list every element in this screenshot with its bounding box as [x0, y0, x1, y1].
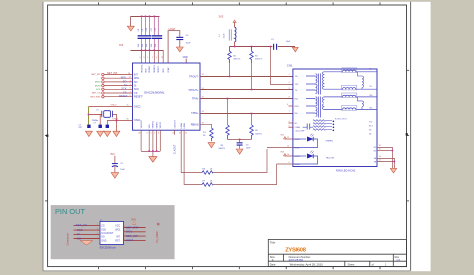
- svg-text:7: 7: [289, 111, 290, 113]
- wire LEDA: [181, 130, 202, 172]
- capacitor C14: [106, 120, 108, 124]
- svg-text:9: 9: [144, 57, 145, 59]
- svg-text:3: 3: [97, 229, 98, 231]
- svg-text:NET_CS: NET_CS: [92, 93, 101, 95]
- pinout right net labels: [126, 225, 139, 242]
- rail wire 2: [278, 46, 295, 48]
- svg-text:1.0: 1.0: [396, 258, 400, 262]
- svg-text:SI: SI: [134, 85, 137, 88]
- pinout left net labels: [76, 223, 87, 240]
- wire: [130, 17, 132, 28]
- wire: [116, 121, 118, 132]
- svg-text:25: 25: [127, 105, 129, 107]
- svg-text:12: 12: [202, 74, 204, 76]
- svg-text:C9: C9: [142, 29, 144, 31]
- termination resistor RT3: [313, 126, 332, 128]
- svg-text:LEDA: LEDA: [126, 238, 133, 242]
- svg-text:50R 1%: 50R 1%: [233, 59, 240, 61]
- cap plates group2: [152, 35, 162, 39]
- CN1 left pin numbers: [287, 74, 290, 164]
- svg-text:20: 20: [138, 133, 140, 135]
- capacitor C9: [145, 16, 147, 50]
- vdd rail: [131, 50, 164, 52]
- ground: [97, 131, 104, 136]
- svg-text:PIN OUT: PIN OUT: [55, 207, 85, 216]
- svg-text:ENC28J60: ENC28J60: [289, 258, 304, 262]
- svg-text:5: 5: [150, 133, 151, 135]
- svg-text:CS: CS: [101, 226, 105, 228]
- wire shield: [377, 159, 395, 169]
- svg-text:SO: SO: [134, 81, 138, 84]
- ground: [104, 131, 111, 136]
- pinout pin numbers: [97, 224, 125, 241]
- svg-text:10nF: 10nF: [246, 148, 251, 150]
- RX winding wires: [306, 97, 324, 113]
- wire: [213, 164, 277, 185]
- svg-text:6: 6: [124, 235, 125, 237]
- capacitor C5: [112, 164, 118, 167]
- svg-text:NET_RST: NET_RST: [91, 96, 102, 98]
- ground: [85, 131, 92, 136]
- capacitor C3: [274, 44, 277, 50]
- pin names right: [188, 74, 199, 126]
- svg-text:10uH: 10uH: [223, 33, 225, 38]
- resistor R5: [251, 114, 253, 126]
- svg-text:LEDA: LEDA: [180, 123, 183, 129]
- svg-text:50R1%: 50R1%: [255, 133, 262, 135]
- svg-text:11: 11: [179, 133, 181, 135]
- PIN OUT panel: [51, 205, 175, 259]
- CN1 right shield pins: [374, 147, 377, 164]
- svg-text:7: 7: [97, 237, 98, 239]
- svg-text:Date:: Date:: [270, 263, 276, 267]
- transformer T1 TX primary: [316, 74, 318, 94]
- svg-text:Sheet: Sheet: [348, 263, 355, 267]
- svg-text:1: 1: [97, 224, 98, 226]
- junction dots: [227, 76, 253, 115]
- capacitor C11: [153, 16, 155, 50]
- resistor R3: [250, 47, 254, 64]
- zone mark dot left: [46, 135, 48, 137]
- pinout right wires: [124, 228, 146, 241]
- svg-text:Connector: Connector: [65, 233, 69, 246]
- ground: [111, 173, 119, 179]
- svg-text:Pn_PWR: Pn_PWR: [155, 231, 159, 242]
- svg-text:VSSOSC: VSSOSC: [141, 120, 143, 129]
- capacitor C8: [141, 16, 143, 50]
- junction dots: [234, 46, 272, 48]
- svg-text:4: 4: [124, 230, 125, 232]
- right inner labels: [369, 121, 374, 135]
- junction dots: [141, 16, 155, 52]
- svg-text:SCK: SCK: [121, 88, 126, 91]
- svg-text:VSSRX: VSSRX: [156, 121, 158, 128]
- svg-text:VDD: VDD: [183, 56, 188, 59]
- choke RD+: [324, 95, 377, 97]
- svg-text:WOL: WOL: [134, 77, 140, 80]
- pinout node circle: [157, 223, 159, 225]
- wire shield: [377, 161, 394, 163]
- pin names top: [141, 64, 170, 73]
- svg-text:TD+: TD+: [369, 69, 372, 71]
- svg-text:10uF: 10uF: [186, 42, 192, 44]
- net VDD stub: [185, 59, 187, 64]
- ground: [176, 47, 183, 52]
- page left edge: [42, 2, 44, 271]
- svg-text:RESET*: RESET*: [134, 96, 143, 99]
- svg-text:YELLOW: YELLOW: [326, 158, 334, 160]
- ground: [113, 131, 120, 136]
- cap plates group1: [138, 35, 152, 39]
- right pin numbers U1: [202, 74, 204, 124]
- svg-text:16: 16: [379, 145, 381, 147]
- svg-text:6: 6: [287, 104, 288, 106]
- wire: [234, 22, 236, 27]
- svg-text:VDD: VDD: [163, 68, 165, 73]
- transformer T1 core: [318, 74, 320, 95]
- left pin numbers: [128, 73, 131, 97]
- svg-text:13: 13: [202, 88, 204, 90]
- svg-text:4: 4: [130, 80, 131, 82]
- svg-text:CLKOUT: CLKOUT: [174, 144, 177, 154]
- transformer T2 RX primary: [316, 97, 318, 117]
- svg-text:ENC28J60-pin: ENC28J60-pin: [100, 246, 117, 249]
- wire: [213, 149, 267, 173]
- svg-text:VDDTX: VDDTX: [158, 65, 160, 72]
- svg-text:104: 104: [138, 44, 140, 47]
- svg-text:8: 8: [124, 239, 125, 241]
- svg-text:CN1: CN1: [287, 64, 293, 68]
- resistor R7: [202, 183, 213, 187]
- svg-text:RST: RST: [115, 240, 120, 242]
- junction: [88, 114, 90, 116]
- svg-text:27: 27: [172, 132, 174, 134]
- svg-text:OSC2: OSC2: [111, 105, 118, 107]
- wire TPOUT-: [200, 76, 293, 78]
- svg-text:1: 1: [147, 57, 148, 59]
- svg-text:Wednesday, April 28, 2010: Wednesday, April 28, 2010: [290, 263, 324, 267]
- svg-text:5: 5: [130, 84, 131, 86]
- wire RBIAS: [200, 124, 211, 128]
- svg-text:NET_INT: NET_INT: [107, 72, 118, 75]
- svg-text:VCAP: VCAP: [167, 67, 170, 73]
- svg-text:VDDRX: VDDRX: [149, 65, 151, 73]
- svg-text:C10: C10: [146, 28, 148, 31]
- svg-text:6: 6: [130, 88, 131, 90]
- termination resistor RT1: [313, 120, 332, 122]
- inductor L1: [235, 27, 236, 42]
- svg-text:3V3: 3V3: [280, 152, 283, 154]
- pin names bottom: [141, 120, 186, 129]
- transformer T2 core: [318, 97, 320, 118]
- svg-text:VCC: VCC: [115, 226, 120, 228]
- wire OSC1: [107, 120, 132, 122]
- svg-text:TPIN-: TPIN-: [192, 97, 199, 101]
- ground: [292, 47, 298, 51]
- bottom pin numbers: [138, 133, 159, 135]
- svg-text:3: 3: [289, 88, 290, 90]
- svg-text:SCK: SCK: [134, 88, 139, 91]
- svg-text:8: 8: [289, 97, 290, 99]
- svg-text:8: 8: [130, 95, 131, 97]
- svg-text:GND: GND: [101, 240, 106, 242]
- svg-text:28: 28: [128, 73, 130, 75]
- svg-text:10nF: 10nF: [286, 41, 291, 43]
- wire TPOUT+: [200, 89, 293, 91]
- off-page connector circles: [102, 73, 104, 98]
- svg-text:3V3: 3V3: [110, 153, 115, 156]
- title block texts: [270, 241, 400, 267]
- svg-text:7: 7: [130, 91, 131, 93]
- svg-text:TD-: TD-: [369, 86, 372, 88]
- termination resistor RT2: [313, 123, 332, 125]
- wire LEDB: [184, 130, 202, 184]
- svg-text:TX-: TX-: [295, 90, 298, 92]
- page right edge: [410, 2, 412, 271]
- junction: [116, 120, 118, 122]
- svg-text:CLKOUT: CLKOUT: [174, 120, 176, 129]
- gnd rail top: [131, 16, 160, 18]
- svg-text:14: 14: [379, 156, 381, 158]
- svg-text:19: 19: [161, 57, 163, 59]
- svg-text:SI: SI: [124, 84, 127, 87]
- svg-text:ZYSI608: ZYSI608: [285, 248, 307, 254]
- svg-text:14: 14: [202, 111, 204, 113]
- svg-text:104: 104: [146, 44, 148, 47]
- pinout left wires: [74, 225, 101, 238]
- pin stub RDC: [288, 105, 293, 107]
- pinout 3V3 power: [131, 217, 136, 224]
- junction dots: [392, 150, 396, 163]
- svg-text:RD-: RD-: [295, 113, 299, 115]
- svg-text:VDDOSC: VDDOSC: [141, 64, 143, 73]
- svg-text:2: 2: [289, 82, 290, 84]
- choke RD-: [324, 108, 377, 110]
- wire LED2-: [277, 163, 293, 165]
- capacitor C7: [87, 125, 90, 128]
- svg-text:OSC1: OSC1: [134, 119, 141, 122]
- svg-text:ENC28J60/ML: ENC28J60/ML: [144, 91, 164, 95]
- capacitor C13: [99, 114, 101, 125]
- cap value labels: [138, 28, 157, 47]
- capacitor C6: [239, 139, 241, 142]
- choke TD-: [324, 88, 377, 90]
- svg-text:15: 15: [202, 97, 204, 99]
- svg-text:104: 104: [142, 44, 144, 47]
- termination junctions: [333, 121, 335, 132]
- LED D2 yellow: [293, 155, 306, 157]
- svg-text:50R1%: 50R1%: [218, 148, 225, 150]
- svg-text:INT: INT: [116, 237, 120, 239]
- resistor R6: [202, 171, 213, 175]
- svg-text:WOL: WOL: [121, 77, 127, 80]
- ground: [127, 26, 134, 31]
- svg-text:NET_CS: NET_CS: [76, 223, 87, 227]
- ground: [236, 149, 243, 154]
- wires to chip VDD pins: [142, 50, 164, 63]
- svg-text:2: 2: [124, 226, 125, 228]
- svg-text:C8: C8: [138, 29, 140, 31]
- svg-text:8: 8: [158, 133, 159, 135]
- pin stub CGND: [288, 126, 293, 128]
- svg-text:3: 3: [146, 133, 147, 135]
- svg-text:VSSTX: VSSTX: [160, 121, 162, 128]
- coil RX tap: [358, 97, 364, 110]
- resistor R4: [227, 99, 229, 126]
- svg-text:MISO: MISO: [95, 82, 101, 84]
- svg-text:4: 4: [156, 57, 157, 59]
- svg-text:3V3: 3V3: [219, 15, 224, 19]
- pin stub NC: [288, 122, 293, 124]
- resistor R2: [228, 47, 232, 64]
- svg-text:104: 104: [151, 44, 153, 47]
- junctions: [148, 150, 157, 152]
- power 3V3 LED1+: [285, 138, 293, 140]
- svg-text:OSC2: OSC2: [134, 105, 141, 108]
- wire: [234, 42, 236, 47]
- wire LED1-: [267, 147, 293, 149]
- frame zone ticks bottom: [99, 267, 380, 270]
- capacitor C10: [148, 16, 150, 50]
- pinout ground: [80, 241, 93, 245]
- svg-text:C11: C11: [151, 28, 153, 31]
- capacitor C4: [176, 37, 183, 40]
- wire crystal left: [89, 114, 102, 116]
- svg-text:RD+: RD+: [369, 95, 373, 97]
- svg-text:50R 1%: 50R 1%: [255, 59, 262, 61]
- svg-text:26: 26: [127, 118, 129, 120]
- top pin numbers: [140, 57, 164, 59]
- crystal Y1: [102, 111, 113, 118]
- svg-text:1: 1: [154, 133, 155, 135]
- wire crystal right: [112, 115, 116, 121]
- pin names left: [134, 73, 143, 122]
- svg-text:104: 104: [155, 44, 157, 47]
- svg-text:TXC: TXC: [295, 84, 299, 86]
- sheet border frame: [48, 5, 407, 267]
- page bottom edge: [43, 270, 411, 272]
- svg-text:MOSI: MOSI: [95, 85, 101, 87]
- svg-text:Title: Title: [270, 241, 276, 245]
- title block: [268, 239, 406, 266]
- svg-text:CGND: CGND: [295, 127, 301, 129]
- wire TPIN+: [200, 113, 293, 115]
- resistor R1: [210, 128, 214, 141]
- ground: [208, 143, 215, 148]
- svg-text:CS: CS: [123, 91, 127, 94]
- svg-text:VDD: VDD: [145, 68, 147, 73]
- ground: [390, 168, 396, 173]
- svg-text:10uF: 10uF: [120, 169, 125, 171]
- svg-text:75 Ohm 1%*4: 75 Ohm 1%*4: [335, 118, 347, 120]
- wire TPIN-: [200, 98, 293, 100]
- capacitor CB 1000pF: [307, 124, 310, 130]
- power 3V3 LED2+: [285, 155, 293, 157]
- svg-text:SO: SO: [101, 237, 105, 239]
- wire OSC2: [89, 106, 133, 108]
- capacitor C12: [157, 16, 159, 50]
- transformer T1 TX secondary: [323, 72, 324, 90]
- wire: [88, 107, 90, 125]
- svg-text:GREEN: GREEN: [326, 141, 334, 143]
- frame zone ticks left: [45, 70, 48, 201]
- CN1 left pin names: [295, 76, 302, 166]
- TX winding wires: [306, 72, 324, 90]
- ground: [149, 157, 157, 163]
- transformer T2 RX secondary: [323, 97, 324, 110]
- svg-text:2: 2: [152, 57, 153, 59]
- svg-text:C12: C12: [155, 28, 157, 31]
- svg-text:SCK: SCK: [101, 229, 106, 231]
- coil TX tap: [358, 72, 364, 89]
- node wire: [228, 139, 252, 141]
- svg-text:VSS: VSS: [149, 124, 151, 129]
- node UCAP wire: [168, 31, 180, 63]
- choke TD+: [324, 70, 377, 72]
- svg-text:SCK: SCK: [96, 89, 101, 91]
- LED D1 green: [293, 138, 306, 140]
- svg-text:WOL: WOL: [115, 229, 121, 231]
- svg-text:CS: CS: [134, 92, 138, 95]
- svg-text:TPIN+: TPIN+: [191, 111, 199, 115]
- svg-text:RESET: RESET: [119, 95, 128, 98]
- svg-text:3V3: 3V3: [280, 135, 283, 137]
- svg-text:1: 1: [289, 74, 290, 76]
- svg-text:SI CLKOUT: SI CLKOUT: [101, 233, 114, 235]
- termination resistor RT4: [313, 129, 332, 131]
- wire shield: [377, 150, 392, 152]
- svg-text:RJ45 LED 8-CH2: RJ45 LED 8-CH2: [336, 170, 356, 173]
- svg-text:LEDB: LEDB: [184, 123, 186, 129]
- frame zone ticks right: [407, 70, 410, 201]
- net CLKOUT stub: [174, 130, 176, 135]
- svg-text:27: 27: [129, 77, 131, 79]
- svg-text:SO: SO: [123, 80, 127, 83]
- svg-text:INT: INT: [134, 73, 138, 76]
- wire TXC: [271, 47, 293, 85]
- svg-text:NET_INT: NET_INT: [91, 74, 101, 76]
- svg-text:RBIAS: RBIAS: [191, 122, 199, 126]
- svg-text:13: 13: [185, 133, 187, 135]
- svg-text:RD-: RD-: [369, 108, 373, 110]
- zone mark dot right: [406, 133, 408, 135]
- wire shield: [377, 148, 393, 169]
- choke winding boxes: [342, 68, 357, 110]
- svg-text:3V3: 3V3: [131, 217, 136, 221]
- svg-text:5: 5: [97, 233, 98, 235]
- svg-text:6: 6: [140, 57, 141, 59]
- svg-text:VSSPLL: VSSPLL: [153, 120, 155, 128]
- svg-text:chassis VBP: chassis VBP: [295, 130, 305, 132]
- svg-text:TPOUT+: TPOUT+: [188, 88, 199, 92]
- rail wire: [230, 46, 273, 48]
- svg-text:3V3: 3V3: [119, 44, 124, 47]
- svg-text:UCAP: UCAP: [169, 28, 176, 31]
- svg-text:VDDPLL: VDDPLL: [154, 64, 156, 73]
- svg-text:RDC: RDC: [295, 106, 300, 108]
- connector J1 pinout box: [100, 222, 124, 245]
- svg-text:TPOUT-: TPOUT-: [189, 74, 199, 78]
- frame zone ticks top: [99, 2, 380, 5]
- svg-text:A: A: [272, 258, 274, 262]
- svg-text:of: of: [372, 263, 374, 267]
